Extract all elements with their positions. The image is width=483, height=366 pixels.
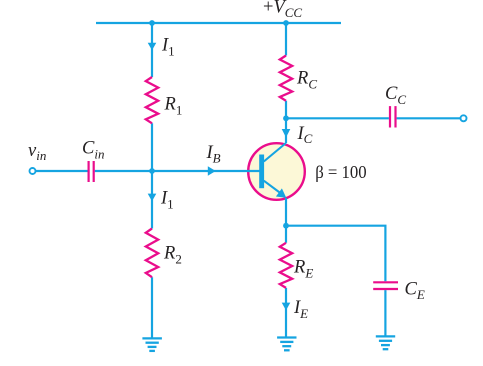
svg-text:Cin: Cin	[82, 139, 104, 162]
svg-text:+VCC: +VCC	[263, 0, 302, 20]
svg-text:CC: CC	[385, 84, 406, 107]
svg-text:IE: IE	[293, 298, 308, 321]
svg-text:R1: R1	[164, 95, 183, 118]
svg-text:CE: CE	[405, 279, 425, 302]
svg-text:I1: I1	[160, 188, 174, 211]
svg-text:IB: IB	[206, 143, 221, 166]
svg-text:vin: vin	[28, 141, 46, 163]
svg-text:I1: I1	[161, 36, 175, 59]
svg-text:RE: RE	[293, 258, 313, 281]
svg-text:β = 100: β = 100	[315, 162, 367, 182]
svg-text:RC: RC	[296, 69, 317, 92]
svg-text:IC: IC	[297, 124, 313, 146]
svg-text:R2: R2	[163, 243, 182, 266]
